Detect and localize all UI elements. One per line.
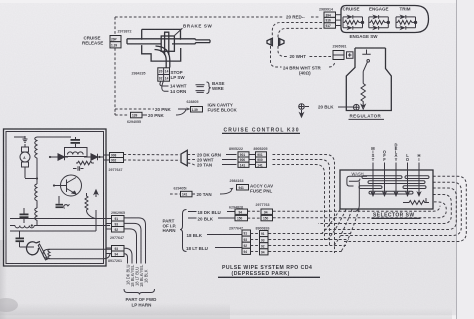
connector stack 2 (93/94) — [112, 246, 125, 257]
brake switch bracket body — [127, 29, 210, 67]
selector loop 1 outer — [344, 176, 466, 241]
branch B continues to 20 WHT — [278, 46, 287, 57]
hairpin winding — [43, 249, 112, 258]
94 row hooking into box corner — [273, 206, 440, 211]
plunger flange — [161, 36, 174, 51]
connectors 94 94 — [235, 209, 248, 214]
connector column 1 — [238, 152, 249, 168]
cruise section resistor network — [343, 15, 364, 30]
regulator body outline — [346, 48, 391, 111]
ground screw left — [299, 104, 305, 117]
diode 1 — [50, 154, 68, 160]
fwd brace — [124, 289, 155, 295]
arrow up test point — [94, 190, 98, 197]
ground cap symbol top — [23, 136, 28, 142]
horizontal coil 4 — [15, 225, 34, 227]
stubs connector to engage box — [336, 15, 342, 26]
harness dashed top wire (20 RED run) — [115, 16, 283, 18]
row 20 BLK — [188, 217, 197, 219]
dashed branch A from engage connector — [272, 23, 322, 38]
meter A with holder — [20, 144, 30, 178]
selector box — [340, 170, 433, 209]
connector 141 — [181, 191, 193, 197]
lower black capacitor — [16, 231, 25, 247]
contact bar r1b — [405, 176, 429, 179]
cruise wire 141 turning down — [273, 165, 325, 241]
contact bar r3b — [403, 186, 426, 189]
cruise release connector — [110, 36, 121, 48]
selector resistor — [403, 201, 429, 205]
coil 1 — [35, 137, 37, 160]
amp output connector 2977647 — [110, 153, 124, 163]
selector position lines with labels — [372, 163, 421, 196]
paper right edge line — [456, 0, 458, 319]
rod through bracket — [127, 39, 195, 44]
harness dashed left edge — [114, 17, 116, 35]
connector 2965981 — [333, 51, 353, 60]
coil 5 — [48, 249, 50, 258]
contact bar r2 — [368, 181, 425, 184]
pnk row 2 with connector 139 — [114, 113, 116, 115]
label 24 BRN WHT STR (40ohm) — [271, 46, 282, 67]
bottom-left scan smudge — [0, 0, 1, 1]
rotated wire labels — [125, 264, 148, 287]
position letter stacks — [371, 142, 420, 161]
wire from cap to loop — [20, 246, 35, 248]
connector stack 1 (91/93/92) — [112, 216, 125, 233]
top rail — [14, 136, 71, 137]
three wires to connector pair — [188, 155, 198, 160]
cruise wire 900 turning down — [273, 160, 330, 247]
connector 941 — [237, 185, 249, 191]
loop clamp symbol — [27, 242, 40, 255]
cruise wire 901 turning down — [273, 155, 335, 254]
resistor vertical right — [85, 193, 95, 219]
fwd harness drops from stack 2 — [124, 248, 132, 263]
mid-left black capacitor — [20, 208, 29, 223]
selector drop curves — [322, 210, 340, 234]
rod right thin tip — [195, 39, 210, 44]
stop lamp switch connector — [158, 68, 170, 81]
plunger stem — [164, 32, 169, 55]
ip inline connector chevron — [181, 150, 187, 166]
engage section resistor network — [369, 15, 390, 30]
contact bar r1a — [362, 176, 402, 179]
engage sw box — [341, 6, 429, 33]
20 BLK wire — [305, 106, 309, 108]
dashed pair to ip chevron — [124, 154, 181, 156]
regulator resistor — [361, 84, 365, 104]
connector 1.39 ign cavity — [191, 107, 203, 113]
wash lever — [347, 176, 367, 186]
blade lever — [38, 244, 47, 260]
wire junction — [25, 160, 37, 184]
capacitor small — [73, 166, 84, 170]
connector 2989914 — [324, 12, 336, 28]
regulator switch — [362, 50, 370, 84]
row 18 DK BLU — [188, 211, 197, 213]
fwd harness drops from stack 1 — [124, 218, 146, 264]
selector loop 5 to 150 row — [273, 202, 446, 218]
coil 2 — [35, 184, 37, 208]
amplifier outer box (double border) — [4, 129, 107, 266]
ground screw right — [353, 104, 359, 110]
selector loop 4 — [318, 195, 451, 224]
capacitor black top — [71, 137, 81, 148]
resistor mid — [76, 161, 94, 165]
ip harness brace — [180, 210, 187, 252]
dashed branch B from engage connector — [278, 28, 322, 37]
contact bar r4 — [369, 191, 413, 194]
selector loop 3 — [322, 188, 456, 230]
elbow pipe — [155, 46, 170, 68]
wiper stack column 1 — [242, 230, 251, 254]
inline connector halves — [267, 38, 284, 45]
cap under transistor — [56, 196, 70, 209]
rails exiting right — [10, 210, 110, 231]
pnk row 1 : dashed bottom edge to fuse block — [115, 108, 154, 110]
selector loop 2 — [341, 182, 461, 235]
coil in box — [65, 148, 88, 157]
brace base wire — [207, 82, 211, 94]
trim section resistor network — [396, 15, 417, 30]
regulator arrow down — [361, 103, 365, 109]
wiper stack column 2 — [260, 231, 269, 255]
coil 3 — [35, 208, 37, 221]
contact bar r3a — [359, 186, 382, 189]
wiper stack rows heading right — [269, 233, 353, 235]
connector column 2 — [256, 152, 267, 168]
connectors 150 150 — [235, 215, 248, 220]
diode 2 — [84, 154, 104, 160]
stop sw wires to base wire — [160, 81, 205, 92]
transistor — [54, 175, 82, 196]
